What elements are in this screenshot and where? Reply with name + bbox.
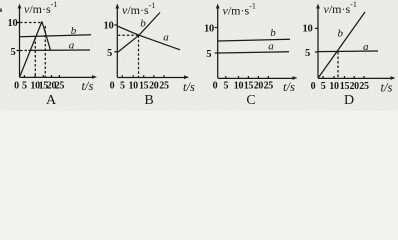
tick y5 A bbox=[17, 50, 20, 52]
y-axis D bbox=[317, 7, 319, 78]
tick y5 C bbox=[215, 52, 218, 54]
line a C bbox=[218, 52, 289, 53]
dashed vertical t10 A bbox=[34, 37, 36, 77]
svg-text:t/s: t/s bbox=[283, 80, 295, 94]
x ticks A bbox=[24, 75, 59, 77]
x-axis B bbox=[117, 77, 186, 79]
svg-text:5: 5 bbox=[206, 49, 211, 60]
tick y10 C bbox=[215, 27, 218, 29]
y arrowhead C bbox=[216, 4, 220, 9]
svg-text:5: 5 bbox=[107, 48, 112, 59]
y-axis A bbox=[19, 7, 21, 77]
x ticks C bbox=[226, 76, 268, 78]
line b B (ascending) bbox=[118, 13, 160, 53]
dashed vertical at crossing B bbox=[138, 35, 140, 77]
line b C bbox=[218, 39, 290, 41]
y arrowhead B bbox=[115, 4, 119, 9]
svg-text:5: 5 bbox=[22, 81, 27, 92]
line a D bbox=[318, 50, 378, 53]
svg-text:10: 10 bbox=[329, 81, 339, 92]
svg-text:a: a bbox=[363, 41, 369, 53]
x-axis C bbox=[218, 77, 295, 79]
svg-text:A: A bbox=[46, 93, 57, 108]
svg-text:t/s: t/s bbox=[82, 79, 94, 93]
svg-text:15: 15 bbox=[340, 81, 350, 92]
scan speck left edge bbox=[0, 9, 2, 13]
x-axis A bbox=[20, 76, 95, 78]
svg-text:10: 10 bbox=[204, 24, 214, 35]
svg-text:5: 5 bbox=[11, 47, 16, 58]
rising line A bbox=[20, 22, 42, 77]
y-axis B bbox=[116, 7, 118, 77]
svg-text:15: 15 bbox=[139, 81, 149, 92]
svg-text:t/s: t/s bbox=[381, 81, 393, 95]
svg-text:b: b bbox=[270, 27, 276, 39]
svg-text:5: 5 bbox=[321, 81, 326, 92]
svg-text:b: b bbox=[71, 25, 77, 37]
svg-text:C: C bbox=[246, 93, 255, 108]
svg-text:t/s: t/s bbox=[183, 80, 195, 94]
svg-text:D: D bbox=[344, 93, 354, 108]
svg-text:10: 10 bbox=[234, 81, 244, 92]
svg-text:10: 10 bbox=[104, 21, 114, 32]
x arrowhead C bbox=[293, 76, 298, 80]
x arrowhead B bbox=[184, 75, 189, 79]
x-axis D bbox=[318, 77, 393, 79]
svg-text:15: 15 bbox=[244, 81, 254, 92]
dashed horizontal to crossing B bbox=[118, 34, 139, 36]
svg-text:0: 0 bbox=[14, 81, 19, 92]
tick y5 B bbox=[114, 51, 117, 53]
dashed 10-level A bbox=[20, 22, 42, 24]
x ticks B bbox=[122, 75, 164, 77]
svg-text:b: b bbox=[338, 28, 344, 40]
y arrowhead D bbox=[316, 4, 320, 9]
tick y5 D bbox=[315, 51, 318, 53]
tick y10 D bbox=[315, 27, 318, 29]
x arrowhead A bbox=[92, 75, 97, 79]
svg-text:a: a bbox=[69, 39, 75, 51]
line a A bbox=[29, 49, 91, 51]
svg-text:25: 25 bbox=[159, 81, 169, 92]
svg-text:a: a bbox=[163, 32, 169, 44]
svg-text:5: 5 bbox=[120, 81, 125, 92]
dashed vertical at crossing D bbox=[337, 52, 339, 78]
svg-text:0: 0 bbox=[311, 81, 316, 92]
x arrowhead D bbox=[391, 76, 396, 80]
svg-text:20: 20 bbox=[349, 81, 359, 92]
svg-text:10: 10 bbox=[8, 18, 18, 29]
descending line A bbox=[42, 22, 51, 51]
svg-text:25: 25 bbox=[359, 81, 369, 92]
line b D (rising through origin) bbox=[319, 12, 366, 78]
line b A bbox=[20, 35, 91, 37]
svg-text:a: a bbox=[268, 40, 274, 52]
svg-text:25: 25 bbox=[264, 81, 274, 92]
x ticks D bbox=[323, 76, 364, 78]
svg-text:10: 10 bbox=[128, 81, 138, 92]
tick y10 A bbox=[17, 22, 20, 24]
svg-text:0: 0 bbox=[213, 81, 218, 92]
y-axis C bbox=[217, 7, 219, 78]
dashed 5 stub A bbox=[20, 50, 28, 52]
paper noise bbox=[0, 0, 398, 111]
svg-text:5: 5 bbox=[305, 48, 310, 59]
svg-text:0: 0 bbox=[110, 81, 115, 92]
svg-text:10: 10 bbox=[303, 24, 313, 35]
svg-text:25: 25 bbox=[55, 81, 65, 92]
svg-text:b: b bbox=[140, 18, 146, 30]
y arrowhead A bbox=[18, 4, 22, 9]
svg-text:20: 20 bbox=[149, 81, 159, 92]
dashed vertical t15 A bbox=[44, 26, 46, 77]
svg-text:B: B bbox=[144, 93, 153, 108]
line a B (descending) bbox=[118, 26, 180, 50]
svg-text:5: 5 bbox=[223, 81, 228, 92]
svg-text:20: 20 bbox=[254, 81, 264, 92]
tick y10 B bbox=[114, 24, 117, 26]
